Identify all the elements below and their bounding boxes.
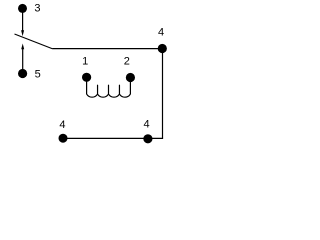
svg-text:4: 4 <box>144 119 150 131</box>
svg-text:2: 2 <box>124 56 130 68</box>
terminal 4 (bottom left) <box>59 134 68 143</box>
terminal 3 <box>18 4 27 13</box>
wire: blade to terminal 4 (top) <box>52 48 162 50</box>
terminal 4 (top right) <box>158 44 167 53</box>
arrowhead on lead 3 pointing down <box>21 30 24 36</box>
wire from terminal 5 <box>22 49 24 71</box>
coil terminal 2 <box>126 73 135 82</box>
switch blade (common contact) <box>15 34 53 49</box>
wire: bottom horizontal <box>63 137 163 139</box>
svg-text:3: 3 <box>34 3 40 15</box>
terminal 4 (bottom right junction) <box>143 134 152 143</box>
wire: right vertical from terminal 4 down <box>162 49 164 139</box>
coil L1 (relay winding, 4 loops) <box>87 77 131 97</box>
coil terminal 1 <box>82 73 91 82</box>
svg-text:4: 4 <box>59 119 65 131</box>
terminal 5 <box>18 69 27 78</box>
arrowhead on lead 5 pointing up <box>21 44 24 50</box>
svg-text:5: 5 <box>35 69 41 81</box>
svg-text:1: 1 <box>82 56 88 68</box>
svg-text:4: 4 <box>158 27 164 39</box>
wire from terminal 3 (movable contact lead) <box>22 12 24 32</box>
